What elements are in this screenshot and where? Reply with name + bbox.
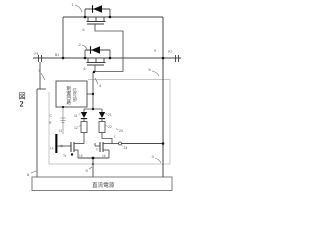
wire control box lower lead [62,107,64,134]
svg-text:5: 5 [149,67,152,72]
svg-text:路: 路 [67,99,72,106]
wire source bus [78,157,109,159]
wire left drop from Q1 source [62,17,64,58]
svg-text:21: 21 [108,113,112,117]
wire Q2 gate lead [94,65,96,72]
label 5 with leader [149,67,160,76]
DC power source box 直流電源 [32,177,172,191]
svg-text:3: 3 [152,154,155,159]
capacitor bar component [55,134,57,153]
svg-text:4: 4 [99,83,102,88]
wire main bus [33,57,181,59]
wire drain to right rail [122,143,164,145]
wire branch split bar [84,109,102,112]
label 23 far right [116,129,123,134]
label 2 with leader [79,42,89,51]
transistor Q1 (top MOSFET) [87,17,106,24]
label 7 with leader [38,68,45,80]
enclosure box 3 (device outline) [49,80,170,165]
resistor R2 right branch [99,122,112,144]
transistor Q2 (series MOSFET on bus) [87,58,106,65]
wire center drop to DC source [92,158,94,177]
junction dots [62,16,165,165]
svg-text:22: 22 [108,125,112,129]
svg-text:1: 1 [72,2,75,7]
svg-text:23: 23 [119,129,123,133]
label 22 at right resistor [106,125,112,129]
label 21 at right diode [106,113,112,117]
diode D1 body diode of Q1 [85,5,110,17]
resistor R1 left branch [81,122,87,144]
transistor Q4 (bottom right) [100,142,103,152]
wire left rail [37,62,46,177]
node P1 left terminal ticks [39,55,42,62]
node small circle on gate feed [61,145,63,147]
svg-text:24: 24 [124,146,128,150]
svg-text:R: R [49,121,52,125]
svg-text:b: b [97,148,99,152]
svg-text:a: a [154,49,156,53]
wire gate feed left transistor [57,145,71,147]
svg-text:6: 6 [84,67,86,71]
figure label 図2 [19,92,26,109]
svg-text:7: 7 [38,68,41,73]
label 1 with leader [72,2,83,12]
svg-text:8: 8 [27,172,30,177]
svg-text:C: C [50,114,53,118]
svg-text:c: c [114,135,116,139]
svg-text:6: 6 [83,28,85,32]
label 8 with leader [27,171,36,177]
node P2 right terminal ticks [176,55,179,62]
svg-text:13: 13 [59,129,63,133]
svg-text:P2: P2 [168,50,172,54]
svg-text:2: 2 [20,100,24,109]
diode D2 body diode of Q2 [85,46,110,58]
svg-text:2: 2 [79,42,82,47]
svg-text:Tr: Tr [63,154,67,158]
svg-text:14: 14 [50,147,54,151]
wire control box output stub [87,93,93,95]
wire top horizontal (Q1 drain to right rail) [63,16,163,18]
control circuit box 4 [56,81,87,107]
diode D4 right branch [99,112,105,122]
label 11 at left diode [74,114,81,119]
svg-text:12: 12 [74,126,78,130]
wire right rail [162,17,164,177]
svg-text:15: 15 [79,154,83,158]
label 12 at left resistor [74,126,81,131]
diode D3 left branch [81,112,87,122]
svg-text:B1: B1 [55,53,59,57]
label 9 with leader [86,167,93,173]
node open circle drain output [119,142,122,145]
label 24 right of Q4 [122,145,128,150]
svg-text:直流電源: 直流電源 [92,181,115,189]
svg-text:P1: P1 [35,52,39,56]
svg-text:11: 11 [74,114,78,118]
label 3 with leader [152,154,162,163]
wire gate node vertical [92,72,94,109]
svg-text:部: 部 [73,96,78,103]
component small marks near lower lead [61,118,66,123]
svg-text:9: 9 [86,168,89,173]
transistor Q3 (bottom left) [71,142,74,152]
wire Q1 gate route [93,24,123,72]
label 4 with leader [95,78,102,88]
svg-text:16: 16 [102,154,106,158]
